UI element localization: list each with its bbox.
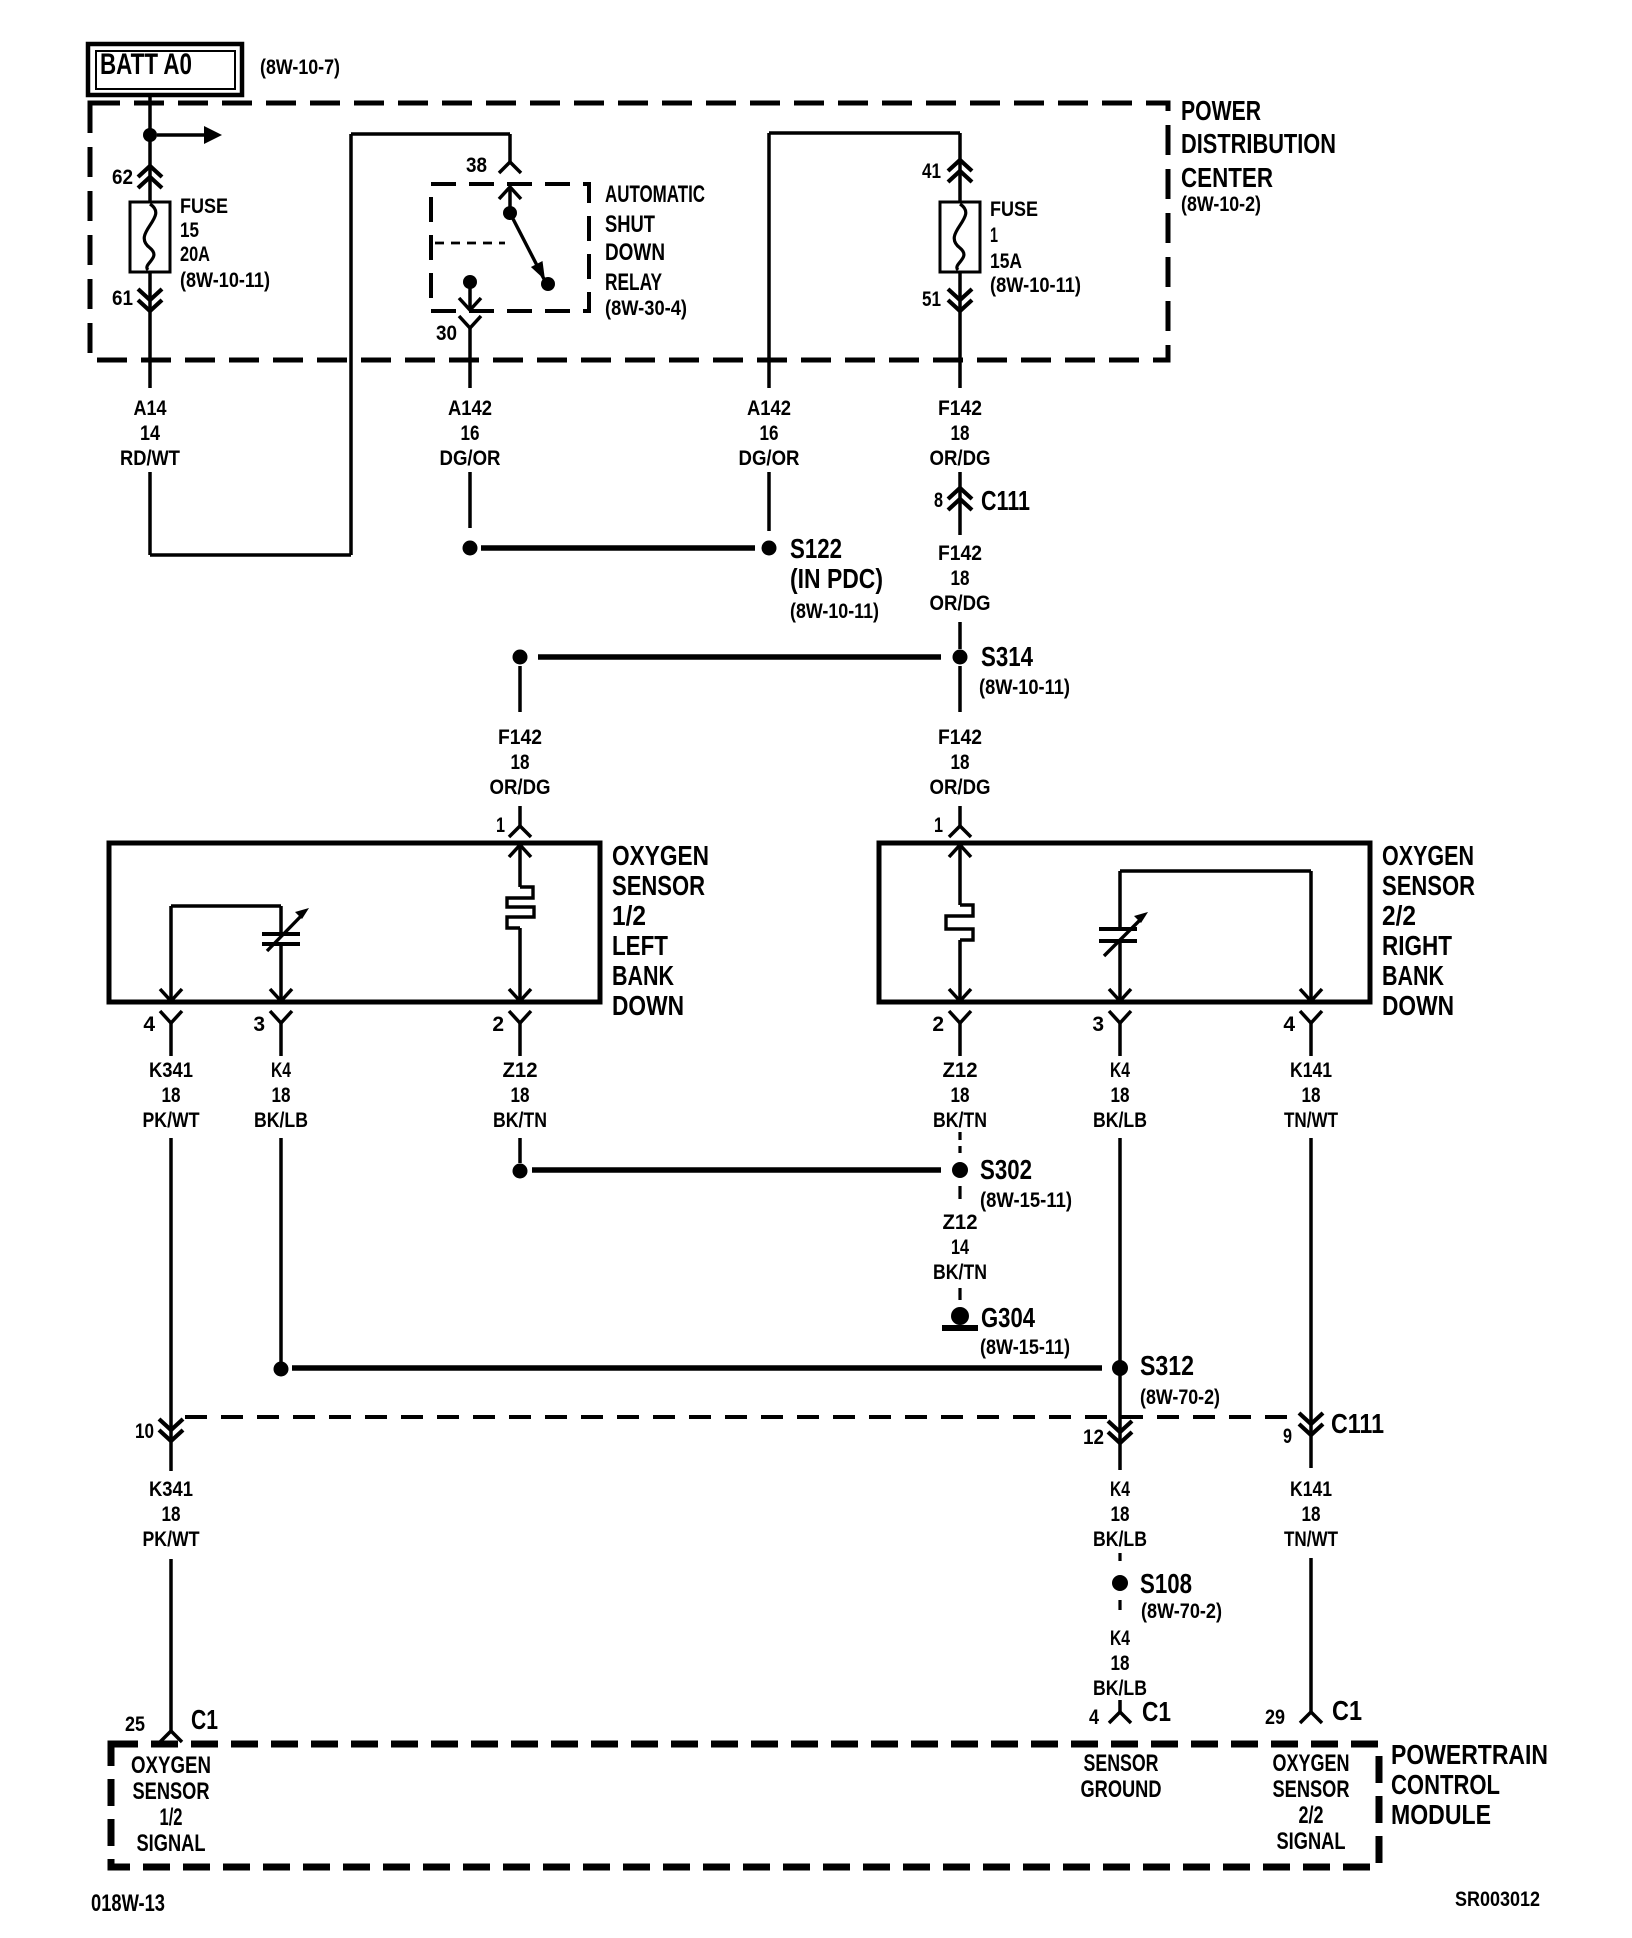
svg-text:3: 3	[253, 1013, 265, 1036]
svg-text:18: 18	[951, 567, 970, 590]
svg-text:RIGHT: RIGHT	[1382, 930, 1452, 961]
svg-text:62: 62	[112, 166, 133, 189]
svg-text:MODULE: MODULE	[1391, 1799, 1491, 1830]
svg-text:FUSE: FUSE	[990, 198, 1038, 221]
svg-text:1/2: 1/2	[160, 1804, 183, 1831]
svg-text:RD/WT: RD/WT	[120, 447, 180, 470]
svg-text:K4: K4	[1110, 1478, 1130, 1501]
svg-text:C1: C1	[1142, 1696, 1171, 1727]
svg-text:SENSOR: SENSOR	[1273, 1776, 1350, 1803]
svg-text:BK/LB: BK/LB	[1093, 1677, 1147, 1700]
svg-text:BATT A0: BATT A0	[100, 48, 192, 81]
svg-text:(8W-10-7): (8W-10-7)	[260, 56, 340, 79]
svg-text:A142: A142	[448, 397, 492, 420]
svg-text:S312: S312	[1140, 1350, 1194, 1381]
svg-text:14: 14	[140, 422, 160, 445]
svg-text:14: 14	[951, 1236, 969, 1259]
svg-text:18: 18	[1302, 1503, 1321, 1526]
svg-text:18: 18	[1302, 1084, 1321, 1107]
svg-text:25: 25	[125, 1713, 145, 1736]
svg-text:DG/OR: DG/OR	[440, 447, 501, 470]
svg-text:(8W-10-11): (8W-10-11)	[790, 600, 879, 623]
svg-text:S108: S108	[1140, 1568, 1192, 1599]
svg-text:18: 18	[162, 1084, 181, 1107]
svg-text:POWER: POWER	[1181, 95, 1261, 126]
svg-text:C1: C1	[1332, 1695, 1362, 1726]
svg-text:PK/WT: PK/WT	[143, 1109, 200, 1132]
svg-text:4: 4	[1283, 1013, 1295, 1036]
svg-text:15: 15	[180, 219, 199, 242]
svg-text:OXYGEN: OXYGEN	[1273, 1750, 1350, 1777]
svg-text:K341: K341	[149, 1059, 193, 1082]
svg-text:OR/DG: OR/DG	[930, 447, 991, 470]
svg-text:SENSOR: SENSOR	[1382, 870, 1475, 901]
svg-text:DG/OR: DG/OR	[739, 447, 800, 470]
svg-text:F142: F142	[498, 726, 542, 749]
svg-text:G304: G304	[981, 1302, 1035, 1333]
svg-text:1: 1	[934, 814, 943, 837]
svg-text:18: 18	[951, 1084, 970, 1107]
svg-text:BK/LB: BK/LB	[1093, 1528, 1147, 1551]
svg-text:K341: K341	[149, 1478, 193, 1501]
svg-text:Z12: Z12	[943, 1059, 978, 1082]
svg-text:38: 38	[466, 154, 487, 177]
svg-text:18: 18	[272, 1084, 291, 1107]
svg-text:CONTROL: CONTROL	[1391, 1769, 1500, 1800]
svg-text:BK/TN: BK/TN	[933, 1261, 987, 1284]
svg-text:LEFT: LEFT	[612, 930, 668, 961]
svg-text:SR003012: SR003012	[1455, 1888, 1540, 1911]
svg-text:15A: 15A	[990, 250, 1022, 273]
svg-text:S302: S302	[980, 1154, 1032, 1185]
svg-text:(8W-10-2): (8W-10-2)	[1181, 193, 1261, 216]
svg-text:(8W-30-4): (8W-30-4)	[605, 297, 687, 320]
svg-text:2/2: 2/2	[1382, 900, 1416, 931]
svg-text:TN/WT: TN/WT	[1284, 1109, 1338, 1132]
svg-text:CENTER: CENTER	[1181, 162, 1273, 193]
svg-text:K4: K4	[1110, 1627, 1130, 1650]
svg-text:DOWN: DOWN	[1382, 990, 1454, 1021]
svg-text:PK/WT: PK/WT	[143, 1528, 200, 1551]
svg-text:30: 30	[436, 322, 457, 345]
svg-text:DISTRIBUTION: DISTRIBUTION	[1181, 128, 1336, 159]
svg-text:61: 61	[112, 287, 133, 310]
svg-text:16: 16	[461, 422, 480, 445]
svg-text:POWERTRAIN: POWERTRAIN	[1391, 1739, 1548, 1770]
svg-text:C111: C111	[981, 485, 1030, 516]
svg-text:DOWN: DOWN	[612, 990, 684, 1021]
svg-text:K4: K4	[1110, 1059, 1130, 1082]
svg-text:AUTOMATIC: AUTOMATIC	[605, 181, 705, 208]
svg-text:2/2: 2/2	[1299, 1802, 1324, 1829]
svg-text:SIGNAL: SIGNAL	[1277, 1828, 1346, 1855]
svg-text:16: 16	[760, 422, 779, 445]
svg-text:RELAY: RELAY	[605, 269, 662, 296]
svg-text:29: 29	[1265, 1706, 1285, 1729]
svg-text:OXYGEN: OXYGEN	[1382, 840, 1474, 871]
svg-text:BANK: BANK	[612, 960, 674, 991]
svg-text:F142: F142	[938, 397, 982, 420]
svg-text:DOWN: DOWN	[605, 239, 665, 266]
svg-text:4: 4	[143, 1013, 155, 1036]
svg-text:(8W-15-11): (8W-15-11)	[980, 1189, 1072, 1212]
svg-text:(8W-70-2): (8W-70-2)	[1140, 1386, 1220, 1409]
svg-text:SENSOR: SENSOR	[612, 870, 705, 901]
svg-text:18: 18	[1111, 1084, 1130, 1107]
svg-text:BANK: BANK	[1382, 960, 1444, 991]
svg-text:F142: F142	[938, 726, 982, 749]
svg-text:2: 2	[492, 1013, 504, 1036]
svg-text:C1: C1	[191, 1704, 218, 1735]
svg-text:SENSOR: SENSOR	[1084, 1750, 1159, 1777]
svg-text:51: 51	[922, 288, 941, 311]
svg-text:BK/TN: BK/TN	[493, 1109, 547, 1132]
svg-text:18: 18	[951, 422, 970, 445]
svg-text:1: 1	[990, 224, 998, 247]
svg-text:18: 18	[1111, 1503, 1130, 1526]
svg-text:20A: 20A	[180, 243, 210, 266]
svg-text:OR/DG: OR/DG	[930, 776, 991, 799]
svg-text:A14: A14	[134, 397, 167, 420]
svg-text:18: 18	[951, 751, 970, 774]
svg-text:S122: S122	[790, 533, 842, 564]
svg-text:OR/DG: OR/DG	[490, 776, 551, 799]
svg-text:18: 18	[162, 1503, 181, 1526]
svg-text:18: 18	[1111, 1652, 1130, 1675]
svg-text:SENSOR: SENSOR	[133, 1778, 210, 1805]
svg-text:10: 10	[135, 1420, 154, 1443]
svg-text:BK/LB: BK/LB	[1093, 1109, 1147, 1132]
svg-text:3: 3	[1092, 1013, 1104, 1036]
svg-text:018W-13: 018W-13	[91, 1890, 165, 1917]
svg-text:K4: K4	[271, 1059, 291, 1082]
svg-text:GROUND: GROUND	[1081, 1776, 1162, 1803]
svg-text:1/2: 1/2	[612, 900, 646, 931]
svg-text:OR/DG: OR/DG	[930, 592, 991, 615]
svg-text:18: 18	[511, 1084, 530, 1107]
svg-text:4: 4	[1089, 1706, 1099, 1729]
svg-text:K141: K141	[1290, 1478, 1332, 1501]
svg-text:K141: K141	[1290, 1059, 1332, 1082]
svg-text:(8W-15-11): (8W-15-11)	[980, 1336, 1070, 1359]
svg-text:8: 8	[934, 489, 943, 512]
svg-text:(8W-10-11): (8W-10-11)	[979, 676, 1070, 699]
svg-text:12: 12	[1083, 1426, 1104, 1449]
svg-text:OXYGEN: OXYGEN	[612, 840, 709, 871]
svg-text:FUSE: FUSE	[180, 195, 228, 218]
svg-text:9: 9	[1283, 1425, 1292, 1448]
svg-text:Z12: Z12	[943, 1211, 978, 1234]
svg-text:F142: F142	[938, 542, 982, 565]
svg-text:18: 18	[511, 751, 530, 774]
svg-text:(IN PDC): (IN PDC)	[790, 563, 883, 594]
svg-text:2: 2	[932, 1013, 944, 1036]
svg-text:BK/LB: BK/LB	[254, 1109, 308, 1132]
svg-text:SHUT: SHUT	[605, 211, 655, 238]
svg-text:S314: S314	[981, 641, 1033, 672]
svg-text:(8W-10-11): (8W-10-11)	[180, 269, 270, 292]
svg-text:BK/TN: BK/TN	[933, 1109, 987, 1132]
svg-text:TN/WT: TN/WT	[1284, 1528, 1338, 1551]
svg-text:Z12: Z12	[503, 1059, 538, 1082]
svg-text:C111: C111	[1331, 1408, 1384, 1439]
svg-text:OXYGEN: OXYGEN	[131, 1752, 211, 1779]
svg-text:(8W-10-11): (8W-10-11)	[990, 274, 1081, 297]
svg-text:41: 41	[922, 160, 941, 183]
svg-text:SIGNAL: SIGNAL	[137, 1830, 206, 1857]
svg-text:A142: A142	[747, 397, 791, 420]
svg-text:(8W-70-2): (8W-70-2)	[1141, 1600, 1222, 1623]
svg-text:1: 1	[496, 814, 505, 837]
